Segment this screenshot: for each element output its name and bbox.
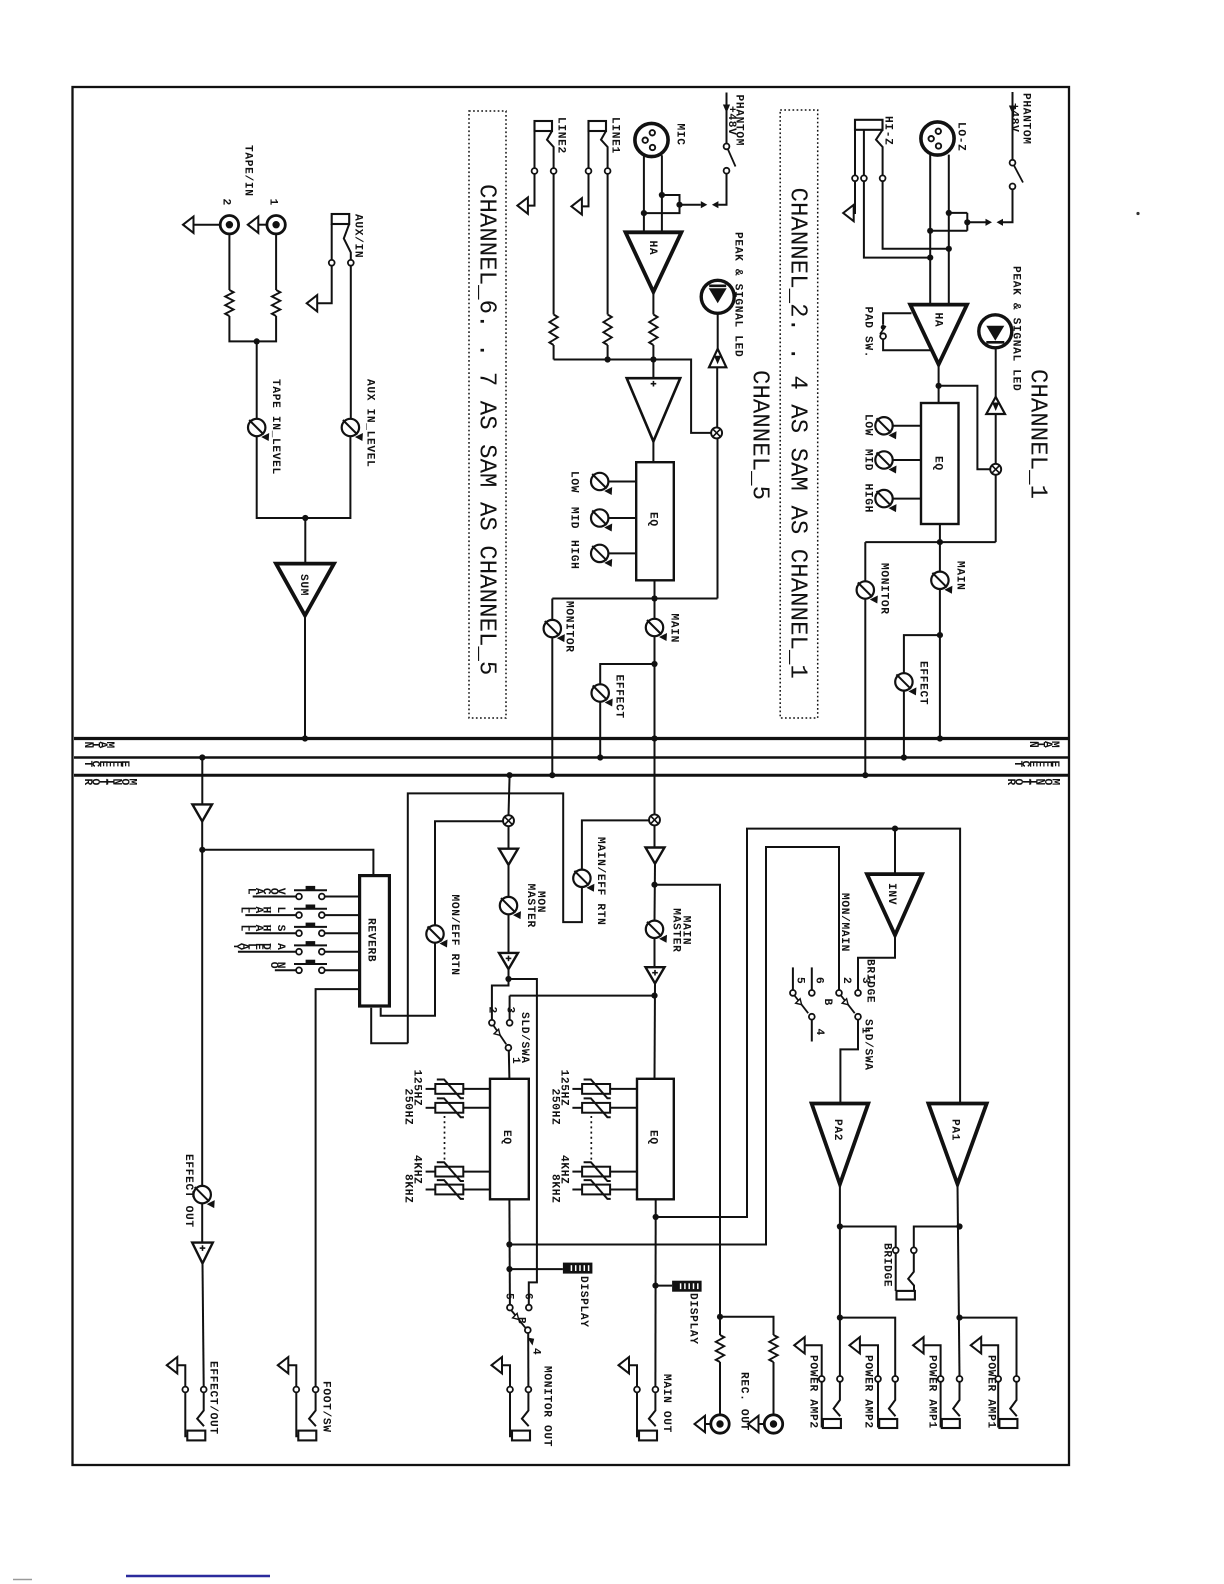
MONITOR bus <box>74 774 1068 777</box>
svg-text:HIGH: HIGH <box>568 540 580 570</box>
slider 8KHZ main EQ <box>582 1180 611 1199</box>
junction sum in <box>302 515 308 521</box>
svg-text:INV: INV <box>885 883 897 905</box>
wire slider 250HZ mon <box>463 1107 490 1109</box>
svg-text:AUX IN_LEVEL: AUX IN_LEVEL <box>364 379 376 467</box>
push switch reverb VOCAL <box>294 886 327 890</box>
wire slider 250HZ main stub <box>572 1107 582 1109</box>
pot MID ch5 <box>591 509 612 531</box>
push switch reverb A_DELAY <box>294 941 327 945</box>
jack POWER AMP2 b sleeve down <box>878 1382 879 1426</box>
wire ch5 tap row <box>552 438 717 620</box>
pot EFFECT ch1 <box>895 673 916 695</box>
svg-text:2: 2 <box>220 199 232 206</box>
EQ block ch5 <box>636 462 674 580</box>
svg-text:CHANNEL_6. . 7 AS SAM AS CHANN: CHANNEL_6. . 7 AS SAM AS CHANNEL_5 <box>473 184 500 675</box>
svg-text:+48V: +48V <box>725 106 737 136</box>
contact reverb sw2 b <box>319 912 325 918</box>
wire reverb sw1 right <box>325 896 360 898</box>
wire MIC pin3 <box>661 155 663 232</box>
wire reverb sw2 right <box>325 914 360 916</box>
svg-text:EQ: EQ <box>932 456 944 471</box>
buffer amp mon 2 <box>499 953 518 969</box>
wire reverb sw1 left <box>253 896 296 898</box>
wire slider 8KHZ mon <box>463 1189 490 1191</box>
wire tape1 down <box>275 234 277 290</box>
junction reverb send <box>199 847 205 853</box>
push switch reverb L_HALL <box>294 905 327 909</box>
buffer amp effect <box>192 804 212 821</box>
buffer amp mon 1 <box>499 849 518 865</box>
buffer amp LED ch1 <box>986 397 1005 414</box>
slider 4KHZ monitor EQ <box>435 1162 464 1181</box>
supply arrow +48V ch1 <box>1009 106 1016 115</box>
dotted gang line monitor EQ <box>444 1116 446 1161</box>
svg-text:LINE1: LINE1 <box>609 117 621 154</box>
switch S5 contact a <box>724 144 730 150</box>
svg-text:BRIDGE: BRIDGE <box>881 1243 893 1287</box>
link arrow right ch5 <box>701 201 708 208</box>
svg-text:POWER AMP1: POWER AMP1 <box>985 1355 997 1429</box>
wire HA5 res down <box>652 345 654 360</box>
switch EQ L contact 5 <box>507 1305 513 1311</box>
EQ block monitor <box>490 1079 529 1200</box>
svg-text:EFFECT/OUT: EFFECT/OUT <box>207 1361 219 1435</box>
jack POWER AMP1 b plug <box>999 1419 1017 1428</box>
switch EQ L contact 6 <box>526 1305 532 1311</box>
wire tape2 join <box>229 316 256 341</box>
wire phantom ch1 <box>1012 92 1014 160</box>
link arrow left ch1 <box>997 219 1004 226</box>
jack POWER AMP1 b sleeve wire <box>981 1345 998 1376</box>
wire HA1 out <box>938 365 940 404</box>
pot MAIN ch5 <box>646 619 667 641</box>
wire main to sld <box>510 996 655 1020</box>
svg-text:EFFECT: EFFECT <box>917 661 929 705</box>
svg-text:SUM: SUM <box>297 574 309 596</box>
wire MIC pin2 <box>643 156 645 232</box>
connector TAPE/IN 2 <box>183 216 239 234</box>
wire reverb sw2 left <box>245 914 296 916</box>
wire LINE1 sleeve <box>582 131 588 206</box>
EQ block main <box>637 1079 674 1200</box>
pot MONITOR ch1 <box>857 581 878 603</box>
wire mon amp2 in <box>508 914 510 953</box>
wire reverb to main rtn <box>408 793 649 1043</box>
svg-text:TAPE IN_LEVEL: TAPE IN_LEVEL <box>269 379 281 475</box>
wire slider 8KHZ main stub <box>572 1189 582 1191</box>
pot HIGH ch5 <box>591 545 612 567</box>
wire LINE2 to sum <box>553 345 555 360</box>
pot LOW ch1 <box>875 417 896 439</box>
contact reverb sw1 b <box>319 894 325 900</box>
jack POWER AMP1 a tip chevron <box>953 1382 960 1416</box>
slider 125HZ main EQ <box>582 1080 611 1099</box>
bridge contact left <box>893 1247 899 1253</box>
junction effect bus tap <box>199 754 205 760</box>
wire tape level out <box>257 436 306 518</box>
pot TAPE IN_LEVEL <box>248 419 269 441</box>
svg-text:T: T <box>81 761 93 768</box>
svg-text:MAIN: MAIN <box>668 614 680 644</box>
wire mon to master pot <box>508 865 510 897</box>
wire main amp2 out <box>654 983 657 1078</box>
svg-text:4: 4 <box>530 1348 542 1355</box>
wire stub 5 <box>792 967 794 990</box>
junction tape <box>254 338 260 344</box>
supply arrow +48V ch5 <box>723 105 730 114</box>
svg-text:MAIN: MAIN <box>679 916 691 946</box>
wire inv out <box>858 935 895 990</box>
wire HA5 out <box>652 292 654 315</box>
resistor tape2 <box>225 290 233 316</box>
junction main display <box>652 1283 658 1289</box>
svg-text:AUX/IN: AUX/IN <box>352 214 364 258</box>
switch S5 contact b <box>724 168 730 174</box>
svg-text:B: B <box>821 999 833 1006</box>
svg-text:PAD SW.: PAD SW. <box>862 307 874 359</box>
wire MID ch5 <box>608 517 636 519</box>
wire mon amp2 out <box>492 969 509 1020</box>
contact reverb sw1 a <box>296 894 302 900</box>
jack POWER AMP1 a sleeve down <box>941 1382 942 1426</box>
pad switch contact <box>880 333 886 339</box>
svg-text:MONITOR: MONITOR <box>878 563 890 615</box>
wire amp to LED ch1 <box>995 348 997 397</box>
wire effect branch ch5 <box>600 664 654 684</box>
jack MONITOR OUT <box>492 1357 532 1440</box>
wiper arrow monitor out <box>527 1338 534 1346</box>
svg-text:HIGH: HIGH <box>862 484 874 514</box>
dotted gang line main EQ <box>590 1116 592 1161</box>
wire foot sw to reverb <box>316 989 360 1386</box>
wire XLR pin3 ch1 <box>948 155 950 306</box>
connector LO-Z XLR ch1 <box>921 122 954 155</box>
summing amp ch5 <box>627 378 681 441</box>
svg-text:MONITOR OUT: MONITOR OUT <box>541 1366 553 1447</box>
jack POWER AMP2 b sleeve contact <box>875 1376 881 1382</box>
wire slider 4KHZ main stub <box>572 1171 582 1173</box>
svg-text:2: 2 <box>840 977 852 984</box>
wire PA1 jack b feed <box>960 1318 1017 1376</box>
svg-text:MID: MID <box>862 449 874 471</box>
wire reverb sw3 right <box>325 932 360 934</box>
DISPLAY main <box>672 1281 702 1292</box>
contact LINE1 tip <box>605 168 611 174</box>
jack AUX/IN <box>332 214 350 224</box>
contact HI-Z tip <box>880 175 886 181</box>
wire bridge left <box>840 1227 896 1248</box>
wire monitor ch5 to bus <box>551 637 553 775</box>
contact LINE2 tip <box>551 168 557 174</box>
wire phantom ch5 <box>726 93 728 144</box>
wire reverb sw3 left <box>245 932 296 934</box>
junction PA1 jacks <box>956 1315 962 1321</box>
wire LOW ch1 <box>893 425 921 427</box>
jack POWER AMP2 a plug <box>823 1419 841 1428</box>
wire S1 to link <box>1003 189 1013 222</box>
wire mon eq bypass <box>509 979 537 1305</box>
wire LINE2 sleeve <box>528 131 534 206</box>
contact reverb sw3 a <box>296 930 302 936</box>
contact HI-Z ring <box>861 175 867 181</box>
wire reverb sw4 right <box>325 951 360 953</box>
svg-text:DISPLAY: DISPLAY <box>687 1293 699 1345</box>
svg-text:250HZ: 250HZ <box>402 1089 414 1126</box>
svg-text:MAIN OUT: MAIN OUT <box>660 1374 672 1433</box>
power amp PA2 <box>812 1104 869 1185</box>
peak & signal LED ch1 <box>979 315 1012 348</box>
contact aux sleeve <box>329 260 335 266</box>
junction effect tap ch1 <box>937 632 943 638</box>
EFFECT bus <box>74 756 1068 759</box>
wire effect master down <box>201 758 203 805</box>
junction sum main bus <box>302 735 308 741</box>
wire PA2 out <box>839 1184 841 1376</box>
junction HA1 out <box>936 383 942 389</box>
wire mon eq out <box>508 1199 511 1304</box>
wire main to master pot <box>654 864 657 921</box>
pot MONITOR ch5 <box>544 620 565 642</box>
wire HI-Z tip <box>876 130 949 249</box>
wire stub 6 <box>811 967 813 990</box>
svg-text:MAIN: MAIN <box>954 561 966 591</box>
jack POWER AMP2 a ground arrow <box>794 1337 805 1353</box>
junction PA2 bridge <box>837 1223 843 1229</box>
wire reverb send <box>202 850 373 876</box>
junction mon display <box>506 1266 512 1272</box>
svg-text:EFFECT: EFFECT <box>613 675 625 719</box>
net EFFECT left label <box>81 761 130 768</box>
svg-text:1: 1 <box>859 1027 871 1034</box>
wire sld pole to eq <box>508 1051 511 1079</box>
wire rec feed <box>655 885 721 1317</box>
junction monitor ch1 bus <box>862 772 868 778</box>
net EFFECT right label <box>1011 761 1060 768</box>
pot MAIN MASTER <box>646 921 667 943</box>
jack POWER AMP1 b sleeve down <box>998 1382 999 1426</box>
wire bridge right <box>914 1227 960 1248</box>
junction phantom ch5 <box>676 202 682 208</box>
junction effect tap ch5 <box>651 661 657 667</box>
op-amp INV <box>867 874 922 935</box>
wire LINE1 tip <box>601 131 608 315</box>
wire main amp1 in <box>654 825 656 847</box>
jack POWER AMP2 a sleeve contact <box>819 1376 825 1382</box>
svg-text:MID: MID <box>568 507 580 529</box>
connector REC OUT 1 <box>695 1415 730 1433</box>
wire eq pole to monitor out <box>527 1333 529 1386</box>
jack FOOT/SW <box>278 1357 319 1440</box>
mix node main <box>649 814 660 825</box>
net MAIN right label <box>1026 741 1060 748</box>
wire effect ch5 to bus <box>599 702 601 758</box>
svg-text:MON: MON <box>534 891 546 913</box>
pot HIGH ch1 <box>875 490 896 512</box>
wire pole a stub <box>811 1020 813 1042</box>
svg-text:MONITOR: MONITOR <box>563 601 575 653</box>
wire slider 4KHZ mon <box>463 1171 490 1173</box>
wire rec right <box>773 1362 775 1415</box>
junction main pre-eq <box>651 993 657 999</box>
svg-text:REVERB: REVERB <box>365 918 377 962</box>
buffer amp effect out <box>192 1243 213 1264</box>
jack POWER AMP1 b tip contact <box>1014 1376 1020 1382</box>
pot MON MASTER <box>500 897 521 919</box>
wire main eq out <box>654 1199 656 1386</box>
svg-text:5: 5 <box>794 977 806 984</box>
switch PA pole a <box>809 1014 815 1020</box>
buffer amp main 1 <box>646 848 665 864</box>
svg-text:6: 6 <box>813 977 825 984</box>
switch PA contact 2 <box>836 990 842 996</box>
wire sum to main bus <box>304 616 306 739</box>
svg-text:L: L <box>237 907 249 914</box>
svg-text:FOOT/SW: FOOT/SW <box>320 1381 332 1433</box>
svg-text:PA1: PA1 <box>949 1119 961 1141</box>
junction PA2 jacks <box>837 1315 843 1321</box>
switch EQ L pole <box>525 1327 531 1333</box>
pot MAIN/EFF RTN <box>573 870 594 892</box>
switch SLD/SWA L lever <box>494 1026 507 1045</box>
EQ block ch1 <box>921 403 959 524</box>
jack POWER AMP1 b sleeve contact <box>995 1376 1001 1382</box>
bridge contact right <box>911 1247 917 1253</box>
reverb switch label A_DELAY <box>230 942 286 950</box>
wire effect chain <box>201 821 203 1186</box>
jack POWER AMP2 b plug <box>879 1419 897 1428</box>
contact reverb sw4 b <box>319 949 325 955</box>
svg-text:250HZ: 250HZ <box>548 1089 560 1126</box>
buffer amp LED ch5 <box>709 349 726 368</box>
junction EQ5 out <box>651 595 657 601</box>
switch PA contact 6 <box>809 990 815 996</box>
wire LOW ch5 <box>608 481 636 483</box>
contact reverb sw5 b <box>319 967 325 973</box>
pot EFFECT OUT <box>194 1186 215 1208</box>
reverb switch label L_HALL <box>237 906 286 914</box>
wire rec left top <box>719 1317 721 1335</box>
svg-text:PHANTOM: PHANTOM <box>1020 93 1032 145</box>
svg-text:EQ: EQ <box>500 1130 512 1145</box>
junction mon post-eq <box>506 1241 512 1247</box>
dashed box channels 2-4 <box>780 110 818 718</box>
svg-text:HA: HA <box>646 241 658 256</box>
svg-text:PEAK & SIGNAL LED: PEAK & SIGNAL LED <box>732 232 744 357</box>
wire link to S5 <box>718 174 726 205</box>
svg-text:EFFECT OUT: EFFECT OUT <box>182 1154 194 1228</box>
wire MID ch1 <box>893 459 921 461</box>
wire mon master down <box>509 775 510 815</box>
scan artifact dot <box>1136 212 1139 215</box>
svg-text:1: 1 <box>267 199 279 206</box>
ground LINE2 <box>517 197 528 213</box>
mix node ch1 <box>990 464 1001 475</box>
junction effect ch5 bus <box>597 754 603 760</box>
svg-text:EQ: EQ <box>647 512 659 527</box>
wire tape2 down <box>228 234 230 290</box>
wire slider 4KHZ mon stub <box>426 1171 436 1173</box>
buffer amp main 2 <box>646 967 665 983</box>
wire HIGH ch1 <box>893 498 921 500</box>
wire slider 4KHZ main <box>610 1171 637 1173</box>
pot MID ch1 <box>875 451 896 473</box>
junction rec tap <box>651 882 657 888</box>
wire effect ch1 to bus <box>903 691 905 758</box>
wire XLR pin2 ch1 <box>929 155 931 306</box>
jack POWER AMP2 a sleeve wire <box>805 1345 822 1376</box>
svg-text:8KHZ: 8KHZ <box>548 1174 560 1204</box>
dashed box channels 6-7 <box>469 111 506 718</box>
wire reverb out A <box>371 1008 408 1044</box>
pot AUX IN_LEVEL <box>342 419 363 441</box>
wire mix to amp ch5 <box>716 367 718 427</box>
link arrow left ch5 <box>712 201 719 208</box>
wire main ch1 <box>939 589 941 739</box>
reverb switch label S_HALL <box>237 924 286 932</box>
net MONITOR right label <box>1004 779 1060 786</box>
junction effect ch1 bus <box>901 754 907 760</box>
contact reverb sw4 a <box>296 949 302 955</box>
wire slider 125HZ mon <box>463 1088 490 1090</box>
jack POWER AMP1 a sleeve contact <box>938 1376 944 1382</box>
reverb switch label NO <box>267 962 286 969</box>
slider 125HZ monitor EQ <box>435 1080 464 1099</box>
svg-text:POWER AMP2: POWER AMP2 <box>807 1355 819 1429</box>
wire sum amp in ch5 <box>652 360 654 379</box>
svg-text:R: R <box>81 779 93 786</box>
wire reverb sw5 right <box>325 969 360 971</box>
slider 250HZ monitor EQ <box>435 1098 464 1117</box>
jack POWER AMP2 b sleeve wire <box>860 1345 878 1376</box>
wire PA1 out <box>958 1184 960 1376</box>
svg-text:MAIN/EFF RTN: MAIN/EFF RTN <box>594 837 606 925</box>
jack EFFECT/OUT <box>167 1357 207 1440</box>
mix node ch5 <box>711 427 722 438</box>
contact LINE1 sleeve <box>586 168 592 174</box>
svg-text:HI-Z: HI-Z <box>882 116 894 146</box>
svg-text:LOW: LOW <box>568 471 580 493</box>
slider 250HZ main EQ <box>582 1098 611 1117</box>
resistor HA5 out <box>649 315 657 346</box>
junction phantom ch1 <box>964 219 970 225</box>
wire slider 125HZ mon stub <box>426 1088 436 1090</box>
ground AUX/IN <box>307 295 318 311</box>
wire peak branch ch1 <box>939 386 991 470</box>
jack POWER AMP1 a ground arrow <box>913 1337 924 1353</box>
push switch reverb S_HALL <box>294 923 327 927</box>
resistor LINE2 <box>549 315 557 346</box>
svg-text:Y: Y <box>230 943 242 950</box>
wire main ch5 <box>654 636 656 814</box>
svg-text:CHANNEL_1: CHANNEL_1 <box>1024 369 1051 499</box>
svg-text:L: L <box>245 888 257 895</box>
scan artifact smudge <box>13 1579 32 1581</box>
svg-text:LINE2: LINE2 <box>555 117 567 154</box>
peak & signal LED ch5 <box>701 280 734 313</box>
switch PA contact 5 <box>790 990 796 996</box>
wire bridge left down <box>895 1253 897 1291</box>
resistor REC right <box>769 1335 777 1362</box>
junction inv in <box>892 826 898 832</box>
wire tape1 join <box>257 316 276 341</box>
junction main ch1 bus <box>937 735 943 741</box>
wire EQ5 out <box>654 580 656 619</box>
switch S1 contact a <box>1010 160 1016 166</box>
amp arrow ch5 <box>714 356 721 365</box>
contact aux tip <box>348 260 354 266</box>
wire reverb sw5 left <box>275 969 296 971</box>
